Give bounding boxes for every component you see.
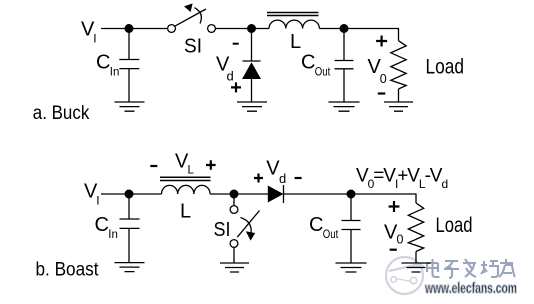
resistor Load (bottom) lower lead <box>415 252 417 263</box>
label plus below diode V_d (top) <box>231 82 241 92</box>
svg-text:L: L <box>188 165 195 177</box>
wire diode V_d2 to load corner <box>284 194 417 203</box>
svg-text:Out: Out <box>315 67 331 79</box>
label minus for V_L (bottom) <box>150 165 157 167</box>
diode V_d (top) triangle <box>242 62 261 79</box>
label minus for V_0 (bottom) <box>390 249 397 251</box>
wire inductor L2 to node J5 <box>210 193 234 195</box>
svg-text:d: d <box>279 171 286 186</box>
switch SI2 (bottom) motion arc <box>241 218 252 234</box>
switch SI2 (bottom) blade <box>237 211 259 238</box>
watermark text shao <box>481 261 498 277</box>
svg-text:a. Buck: a. Buck <box>33 103 90 124</box>
capacitor C_In (top) plates <box>119 60 139 69</box>
diode V_d2 (bottom) triangle <box>268 186 284 203</box>
label minus for V_d2 (bottom) <box>295 177 302 179</box>
capacitor C_In (bottom) lower lead <box>128 228 130 262</box>
svg-text:Load: Load <box>426 55 465 78</box>
svg-text:SI: SI <box>214 219 231 241</box>
label plus for V_d2 (bottom) <box>254 174 263 183</box>
wire node J2 to inductor L <box>252 28 270 30</box>
svg-text:L: L <box>290 31 301 53</box>
capacitor C_In (bottom) lead <box>128 194 130 219</box>
capacitor C_Out (bottom) lower lead <box>350 230 352 263</box>
watermark text fa <box>463 259 476 277</box>
node J3 output node <box>340 24 349 33</box>
svg-text:C: C <box>96 52 110 74</box>
switch SI2 (bottom) arrowhead <box>246 231 255 240</box>
switch SI (top) motion arc <box>195 8 202 24</box>
ground (top C_In) <box>115 102 145 111</box>
wire node J1 to switch SI <box>129 28 168 30</box>
label plus for V_L (bottom) <box>206 160 216 170</box>
ground (bottom Load) <box>402 263 431 272</box>
ground (bottom C_Out) <box>336 263 367 272</box>
svg-text:L: L <box>180 201 191 223</box>
wire top input <box>101 28 129 30</box>
switch SI2 (bottom) bottom contact <box>230 240 238 248</box>
ground (top diode) <box>237 102 267 111</box>
diode V_d (top) cathode bar <box>243 60 261 62</box>
wire bottom input <box>101 193 129 195</box>
switch SI (top) right contact <box>208 25 216 33</box>
svg-text:Load: Load <box>436 214 473 237</box>
svg-text:C: C <box>309 214 323 236</box>
wire node J4 to inductor L2 <box>129 193 162 195</box>
diode V_d2 (bottom) cathode bar <box>283 185 285 203</box>
capacitor C_Out (top) lead <box>343 29 345 61</box>
watermark text dian <box>427 259 440 277</box>
ground (bottom switch) <box>220 263 249 272</box>
inductor L2 (bottom) winding <box>162 185 211 194</box>
node J2 diode node <box>247 24 256 33</box>
svg-text:www.elecfans.com: www.elecfans.com <box>424 281 517 297</box>
wire node J3 to load corner <box>344 29 399 41</box>
wire switch SI to node J2 <box>215 28 251 30</box>
svg-text:d: d <box>227 69 234 84</box>
resistor Load (top) zigzag <box>391 41 406 89</box>
label plus for V_0 (bottom) <box>389 201 400 212</box>
svg-text:C: C <box>95 214 109 236</box>
resistor Load (top) lower lead <box>398 89 400 102</box>
resistor Load (bottom) zigzag <box>408 203 423 252</box>
watermark text you <box>499 259 515 277</box>
svg-text:Out: Out <box>323 229 339 241</box>
inductor L2 (bottom) core lines <box>160 177 211 180</box>
capacitor C_Out (bottom) plates <box>342 221 361 230</box>
label minus for V_0 (top) <box>378 92 386 94</box>
diode V_d (top) cathode lead <box>251 29 253 62</box>
svg-text:SI: SI <box>184 36 202 58</box>
node J6 bottom output node <box>347 190 356 199</box>
svg-text:In: In <box>108 229 118 241</box>
capacitor C_Out (top) plates <box>335 61 354 69</box>
svg-text:d: d <box>442 177 449 191</box>
node J5 switch node <box>230 190 239 199</box>
node J4 bottom input node <box>125 190 134 199</box>
switch SI (top) left contact <box>168 25 176 33</box>
capacitor C_In (top) lead <box>128 29 130 60</box>
inductor L (top) winding <box>269 20 319 28</box>
svg-text:0: 0 <box>380 72 387 86</box>
node J1 input node <box>125 24 134 33</box>
watermark text zi <box>444 261 459 278</box>
svg-text:b. Boast: b. Boast <box>36 260 100 281</box>
label plus for V_0 (top) <box>376 36 387 47</box>
switch SI2 (bottom) lower lead <box>233 247 235 262</box>
label minus above diode V_d (top) <box>233 43 239 45</box>
svg-text:0: 0 <box>397 233 404 247</box>
ground (top C_Out) <box>329 102 360 111</box>
switch SI2 (bottom) upper lead <box>233 194 235 206</box>
wire node J5 to diode V_d2 <box>234 193 268 195</box>
ground (top Load) <box>384 102 413 111</box>
capacitor C_In (top) lower lead <box>128 69 130 102</box>
switch SI (top) arrowhead <box>184 3 193 12</box>
capacitor C_In (bottom) plates <box>120 219 140 228</box>
watermark logo circle <box>386 257 424 294</box>
svg-text:In: In <box>110 67 120 79</box>
wire inductor L to node J3 <box>319 28 344 30</box>
capacitor C_Out (top) lower lead <box>343 69 345 102</box>
capacitor C_Out (bottom) lead <box>350 194 352 220</box>
svg-text:C: C <box>301 52 315 74</box>
svg-text:I: I <box>93 32 96 46</box>
ground (bottom C_In) <box>115 263 145 272</box>
svg-text:I: I <box>96 194 99 208</box>
switch SI (top) blade <box>175 9 206 26</box>
switch SI2 (bottom) top contact <box>230 206 238 214</box>
diode V_d (top) anode lead <box>251 79 253 102</box>
inductor L (top) core lines <box>267 13 319 16</box>
